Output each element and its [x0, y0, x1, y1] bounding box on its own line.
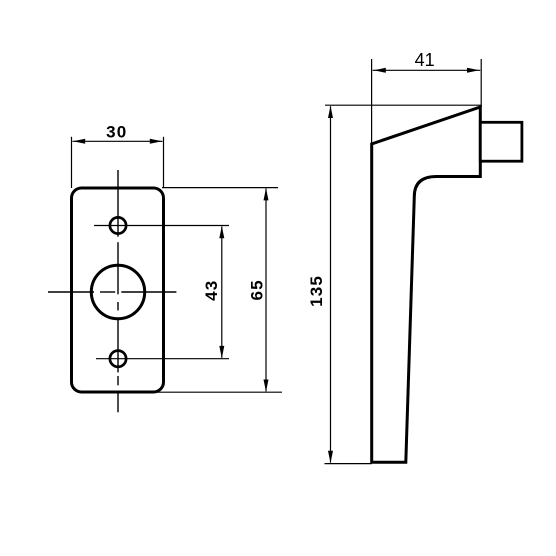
dimension 65 extension lines	[156, 188, 282, 393]
top hole center line / extension to 43 dimension	[94, 225, 229, 227]
spindle neck rectangle	[480, 122, 522, 161]
dimension 41 line with arrows	[373, 68, 481, 73]
vertical center line of plate	[117, 170, 119, 412]
dimension 43 line with arrows	[219, 226, 224, 358]
svg-text:135: 135	[307, 275, 326, 307]
dimension 135 extension lines	[325, 105, 482, 463]
bottom screw hole	[110, 351, 126, 367]
horizontal center line through large hole	[48, 291, 176, 293]
bottom hole center line / extension to 43 dimension	[96, 358, 229, 360]
dimension 41 extension lines	[372, 59, 482, 144]
svg-text:41: 41	[415, 50, 435, 70]
dimension 30 line with arrows	[73, 139, 163, 144]
dimension 65 line with arrows	[264, 188, 269, 392]
svg-text:43: 43	[202, 280, 221, 301]
svg-text:30: 30	[106, 123, 127, 142]
dimension 135 line with arrows	[328, 106, 333, 463]
dimension 30 extension lines	[72, 137, 164, 188]
large hole circle	[91, 265, 144, 318]
top screw hole	[110, 217, 126, 233]
handle outline (side view)	[372, 107, 481, 462]
plate outline (front view rounded rectangle)	[72, 188, 164, 392]
svg-text:65: 65	[248, 279, 267, 300]
